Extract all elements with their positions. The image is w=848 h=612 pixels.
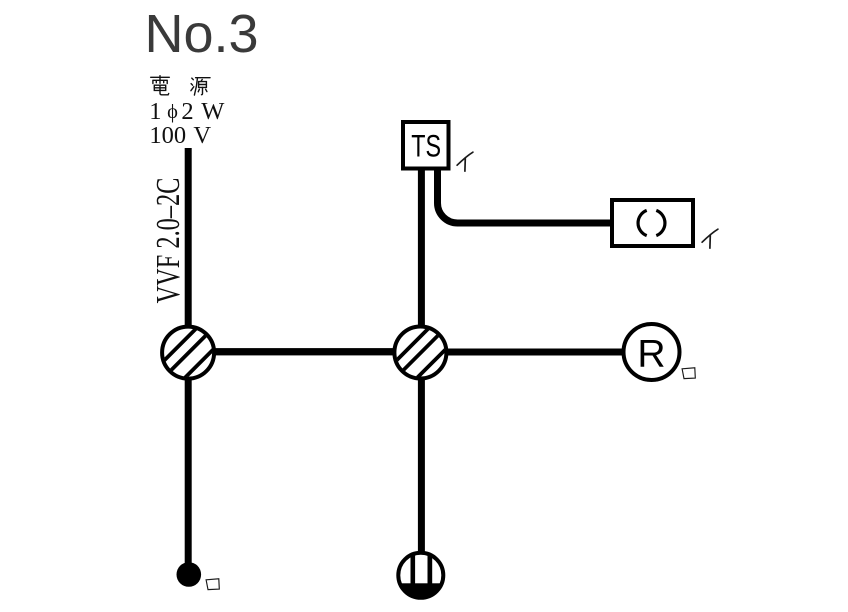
svg-text:1: 1: [149, 98, 161, 125]
svg-text:R: R: [637, 332, 665, 375]
timer switch TS box: [403, 122, 449, 169]
label 電源 (power source): [151, 76, 210, 95]
wire: junction B up to timer switch TS: [418, 168, 425, 330]
wire: junction B to lamp receptacle R: [440, 349, 624, 356]
svg-text:V: V: [193, 122, 211, 149]
svg-text:TS: TS: [411, 128, 441, 163]
label イ (exhaust fan): [702, 229, 718, 248]
svg-text:ϕ: ϕ: [167, 101, 178, 123]
label イ (timer switch): [457, 152, 473, 171]
svg-text:2: 2: [181, 98, 193, 125]
ceiling rosette (hikkake ceiling): [398, 552, 444, 601]
lamp receptacle R: [624, 324, 680, 380]
label ロ (lamp receptacle): [682, 368, 695, 379]
svg-text:100: 100: [149, 122, 186, 149]
label ロ (switch): [206, 579, 219, 590]
wire: power source drop to junction A: [185, 148, 192, 330]
exhaust fan box: [612, 200, 693, 246]
junction box B (VVF joint box): [382, 315, 461, 394]
switch ロ (single-pole switch dot): [177, 562, 202, 587]
junction box A (VVF joint box): [150, 315, 229, 394]
label 100V: [149, 122, 211, 149]
wire: junction A down to switch: [185, 370, 192, 564]
wire: junction A to junction B: [200, 348, 410, 355]
svg-text:No.3: No.3: [145, 4, 259, 64]
wire: junction B down to ceiling rosette: [418, 375, 425, 556]
wire: TS to exhaust fan (curved): [438, 168, 613, 223]
svg-text:VVF 2.0–2C: VVF 2.0–2C: [150, 178, 187, 304]
label 1φ2W: [149, 98, 225, 125]
svg-text:W: W: [201, 98, 225, 125]
